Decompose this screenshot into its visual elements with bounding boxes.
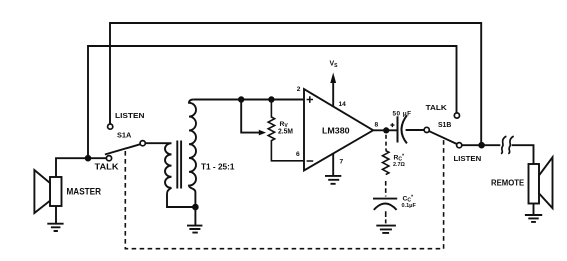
switch S1A arm <box>105 144 140 154</box>
wire secondary rail to LM380 pin 2 <box>194 99 304 101</box>
svg-text:TALK: TALK <box>95 163 119 172</box>
switch S1A LISTEN contact <box>108 124 113 129</box>
transformer T1 core <box>177 141 181 189</box>
wire break to remote speaker <box>512 145 534 164</box>
node master junction <box>85 155 92 162</box>
op-amp minus input marking <box>307 160 314 162</box>
resistor Rv zigzag <box>268 100 304 161</box>
switch S1B TALK contact <box>454 113 459 118</box>
speaker REMOTE horn <box>539 157 553 208</box>
ground under transformer <box>187 207 202 233</box>
switch S1B arm <box>429 131 456 144</box>
svg-text:LISTEN: LISTEN <box>115 111 145 120</box>
capacitor 50uF straight plate <box>397 116 399 142</box>
transformer T1 primary winding <box>145 143 171 188</box>
wire S1B LISTEN contact to remote junction and break <box>462 144 501 146</box>
ground under master speaker <box>47 224 63 231</box>
switch S1A TALK contact <box>106 156 111 161</box>
svg-text:REMOTE: REMOTE <box>491 179 525 188</box>
wire junction to S1A TALK contact <box>88 157 107 159</box>
svg-text:VS: VS <box>330 61 339 69</box>
ground under remote speaker <box>525 215 542 222</box>
svg-text:50 μF: 50 μF <box>393 111 412 118</box>
node remote junction <box>478 142 485 149</box>
svg-text:2.7Ω: 2.7Ω <box>393 162 405 168</box>
transformer T1 secondary winding <box>189 100 196 208</box>
wire pot wiper from rail dot A <box>241 100 260 133</box>
dashed lead output junction to Rc <box>385 135 387 151</box>
ground under op-amp pin 7 <box>325 176 341 184</box>
wire remote speaker to ground <box>533 204 535 215</box>
svg-text:MASTER: MASTER <box>67 187 102 197</box>
svg-text:8: 8 <box>375 121 379 128</box>
potentiometer wiper arrowhead <box>259 130 266 136</box>
wire master speaker to ground <box>55 206 57 223</box>
svg-text:TALK: TALK <box>426 103 448 112</box>
op-amp U1 LM380 triangle <box>304 89 373 171</box>
svg-text:S1B: S1B <box>438 120 451 129</box>
wire primary bottom lead to ground junction <box>167 188 195 207</box>
wire op-amp output pin 8 <box>373 129 397 131</box>
cable break mark right <box>508 136 513 154</box>
capacitor Cc curved plate <box>374 204 397 210</box>
svg-text:LM380: LM380 <box>322 126 350 136</box>
node rail dot B <box>268 96 274 102</box>
svg-text:7: 7 <box>340 159 344 166</box>
pin 7 ground line <box>332 153 334 175</box>
op-amp plus input marking <box>307 96 313 103</box>
dashed linkage S1A to S1B ganged switch <box>125 140 443 249</box>
speaker REMOTE frame <box>529 164 540 204</box>
svg-text:0.1μF: 0.1μF <box>402 203 417 209</box>
pin 14 supply line with arrow <box>332 80 334 107</box>
svg-text:14: 14 <box>339 101 347 108</box>
svg-text:T1 - 25:1: T1 - 25:1 <box>201 161 235 171</box>
node transformer ground junction <box>192 204 199 211</box>
speaker MASTER horn <box>34 170 50 213</box>
svg-text:2: 2 <box>297 86 301 93</box>
speaker MASTER frame <box>50 177 62 206</box>
dashed lead Rc to Cc <box>385 181 387 197</box>
wire second rail: master junction up, across, down to S1B TALK contact <box>88 46 457 158</box>
switch S1B pole contact <box>424 127 429 132</box>
svg-text:6: 6 <box>296 151 300 158</box>
resistor Rc zigzag <box>383 151 389 175</box>
capacitor Cc straight plate <box>373 198 397 200</box>
wire top rail: S1A LISTEN contact up, across to right side, down to remote junction <box>110 23 481 145</box>
svg-text:2.5M: 2.5M <box>278 129 293 136</box>
wire master speaker to junction <box>56 158 88 177</box>
svg-text:LISTEN: LISTEN <box>454 156 482 163</box>
node rail dot A <box>238 96 244 102</box>
dashed lead Cc to ground <box>385 211 387 223</box>
cable break mark left <box>501 136 506 154</box>
switch S1A pole contact <box>140 141 145 146</box>
svg-text:S1A: S1A <box>117 130 131 139</box>
wire capacitor to S1B pole <box>406 129 425 131</box>
pin 14 arrowhead <box>330 73 336 84</box>
capacitor 50uF curved plate <box>402 115 407 143</box>
switch S1B LISTEN contact <box>457 143 462 148</box>
ground under Cc <box>376 226 396 233</box>
capacitor 50uF plus marking <box>390 123 394 127</box>
node output junction <box>383 127 389 133</box>
